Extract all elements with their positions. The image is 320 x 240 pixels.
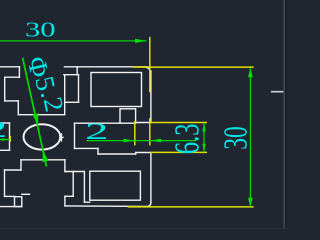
profile right face lower <box>150 153 152 203</box>
right mid wall vertical <box>74 123 76 148</box>
window edge right light line <box>283 0 285 229</box>
window edge right dark band <box>285 0 287 229</box>
ledge to cavity wall <box>84 201 89 203</box>
center hole ellipse <box>24 124 61 149</box>
dim line 2 <box>87 140 197 142</box>
right staircase shelf 1 <box>65 101 79 103</box>
lower staircase ledge 2 <box>98 153 136 155</box>
dim line 6.3 <box>203 123 205 152</box>
left 2 dim line (cropped) <box>0 139 10 141</box>
top slot left neck wall <box>18 67 20 77</box>
bottom slot left lip top <box>5 195 15 197</box>
arrowhead right 30 bottom <box>248 198 253 208</box>
ext line top dim right <box>149 38 151 92</box>
arrowhead 6.3 top <box>202 123 205 132</box>
top slot left step <box>17 101 19 115</box>
top slot channel outer wall <box>78 75 80 103</box>
window edge bottom <box>0 228 287 229</box>
arrowhead 2 left <box>124 139 135 143</box>
top-right cavity rectangle <box>91 73 142 107</box>
svg-text:6.3: 6.3 <box>167 123 206 154</box>
dim line top 30 <box>0 40 147 42</box>
arrowhead top 30 <box>135 39 147 43</box>
leader arrowhead upper <box>32 113 38 125</box>
bottom cross cavity left arm top <box>5 169 22 171</box>
bottom face right segment <box>65 205 147 208</box>
left cavity corner bottom <box>0 149 10 151</box>
bottom cross cavity right wall <box>64 160 66 172</box>
profile top face left segment <box>0 66 19 68</box>
arrowhead right 30 top <box>248 68 253 78</box>
top slot right inner wall <box>76 67 78 75</box>
arrowhead 6.3 bottom <box>202 144 205 153</box>
right slot lip lower wall <box>135 153 137 155</box>
bottom slot left box <box>15 197 22 207</box>
mid horizontal ledge <box>75 122 121 124</box>
unrelated drawing fragment right edge <box>272 91 284 93</box>
top slot channel inner wall <box>64 75 66 115</box>
top slot channel left wall <box>4 77 6 101</box>
profile top face right segment <box>64 66 147 68</box>
cyan dimension texts <box>0 17 255 154</box>
bottom slot left shelf <box>22 193 30 195</box>
leader line phi5.2 <box>23 58 47 167</box>
top slot left shelf <box>5 100 19 102</box>
bottom cross cavity top <box>21 159 65 161</box>
ext line 2 dim right <box>149 119 151 145</box>
profile right face upper <box>150 71 152 123</box>
bottom rib top <box>65 171 85 173</box>
svg-text:30: 30 <box>25 17 56 41</box>
bottom cross cavity left wall <box>20 160 22 170</box>
top slot right lip underside <box>64 74 79 76</box>
arrowhead 2 right <box>150 139 161 143</box>
left cavity corner top <box>0 122 10 124</box>
bottom rib right wall <box>83 172 85 203</box>
svg-text:30: 30 <box>218 126 255 149</box>
ext line 2 dim left <box>134 122 136 145</box>
bottom face left segment <box>0 206 22 208</box>
svg-text:2: 2 <box>85 119 109 144</box>
quadrant marker cross <box>60 136 63 138</box>
leader arrowhead lower <box>42 150 48 162</box>
ext line 6.3 dim bottom <box>151 151 206 153</box>
top slot channel bottom <box>18 114 64 116</box>
small cavity box left of right slot <box>120 109 136 123</box>
bottom rib left wall <box>72 172 74 197</box>
left cavity right wall <box>9 123 11 150</box>
ext line right dim bottom <box>129 206 253 208</box>
right slot neck top <box>136 122 151 124</box>
top slot left lip underside <box>5 76 20 78</box>
right slot neck bottom <box>136 152 151 154</box>
lower staircase step <box>97 148 99 154</box>
bottom slot right lip <box>65 195 73 197</box>
top-right corner fillet <box>144 67 151 75</box>
bottom-right cavity rectangle <box>90 171 141 200</box>
green dimension lines <box>0 39 253 207</box>
left 2 dim arrowhead <box>2 138 10 141</box>
lower staircase ledge 1 <box>75 147 99 149</box>
ext line 6.3 dim top <box>151 122 206 124</box>
dim line right 30 <box>249 69 251 207</box>
ext line right dim top <box>134 66 253 68</box>
svg-text:2: 2 <box>0 117 7 142</box>
ext line left 2 dim (cropped) <box>9 137 11 141</box>
yellow extension lines <box>10 38 253 207</box>
bottom cross cavity left arm wall <box>4 170 6 196</box>
bottom slot right neck wall <box>64 196 66 206</box>
bottom-right corner fillet <box>147 202 151 206</box>
